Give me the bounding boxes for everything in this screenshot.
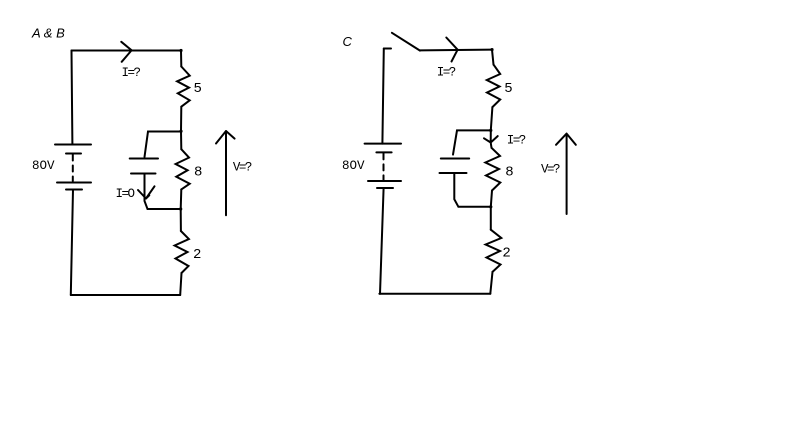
wire: left vertical from battery to bottom (circuit C)	[380, 188, 384, 294]
wire: right vertical top lead into R5 (circuit C)	[492, 50, 494, 65]
svg-text:V=?: V=?	[541, 163, 560, 177]
wire: R2 bottom lead (circuit C)	[490, 272, 492, 294]
svg-text:I=?: I=?	[507, 133, 526, 147]
wire: R2 top lead (circuit C)	[490, 207, 492, 230]
resistor R2 2-ohm (circuit A&B)	[175, 231, 189, 273]
svg-text:I=?: I=?	[122, 66, 141, 80]
current arrow chevron on top wire (circuit C)	[446, 38, 457, 62]
wire: bottom horizontal (circuit C)	[379, 293, 490, 295]
wire: left vertical from battery to bottom (circuit A&B)	[71, 190, 73, 296]
wire: R8 bottom lead to node (circuit C)	[491, 191, 492, 207]
wire: capacitor branch bottom (circuit A&B)	[145, 174, 181, 209]
node: capacitor top junction (circuit C)	[489, 129, 492, 132]
wire: capacitor branch top (circuit A&B)	[145, 132, 182, 158]
capacitor C1 (circuit A&B)	[130, 159, 158, 174]
switch S1 open blade (circuit C)	[392, 33, 420, 51]
current arrow I=0 on capacitor branch (circuit A&B)	[138, 186, 155, 198]
svg-text:I=?: I=?	[437, 65, 456, 79]
wire: left vertical from switch to battery (circuit C)	[382, 49, 383, 144]
resistor R5 5-ohm (circuit A&B)	[177, 67, 190, 107]
svg-text:C: C	[343, 34, 353, 49]
svg-text:8OV: 8OV	[342, 159, 365, 173]
svg-text:8OV: 8OV	[32, 159, 55, 173]
wire: R8 top lead (circuit A&B)	[180, 131, 182, 149]
resistor R8 8-ohm (circuit C)	[485, 148, 500, 191]
svg-text:2: 2	[193, 247, 201, 263]
svg-text:A & B: A & B	[31, 26, 65, 41]
wire with current arrow I=? down to R8 (circuit C)	[484, 130, 498, 147]
wire: between R5 and node A (circuit A&B)	[180, 107, 182, 132]
svg-text:8: 8	[505, 165, 513, 181]
wire: right vertical top lead into R5 (circuit A&B)	[180, 51, 182, 67]
current arrow chevron on top wire (circuit A&B)	[121, 42, 131, 62]
battery 80V (circuit C)	[365, 144, 401, 188]
capacitor C1 (circuit C)	[440, 159, 470, 174]
wire: bottom horizontal (circuit A&B)	[71, 294, 180, 296]
svg-text:2: 2	[502, 246, 510, 262]
resistor R5 5-ohm (circuit C)	[487, 65, 500, 108]
svg-text:I=O: I=O	[116, 187, 135, 201]
wire: top horizontal (circuit C)	[420, 49, 492, 52]
junction dot top-right corner (circuit C)	[490, 48, 493, 51]
junction dot top-right corner (circuit A&B)	[179, 49, 182, 52]
svg-text:V=?: V=?	[233, 160, 252, 174]
wire: top horizontal (circuit A&B)	[72, 50, 182, 52]
svg-text:5: 5	[504, 81, 512, 97]
svg-text:8: 8	[194, 165, 202, 181]
battery 80V (circuit A&B)	[55, 145, 91, 190]
wire: R8 bottom lead to node B (circuit A&B)	[180, 189, 183, 209]
wire: R2 bottom lead (circuit A&B)	[180, 273, 181, 295]
voltage arrow V=? pointing up (circuit A&B)	[216, 131, 235, 215]
wire: R2 top lead (circuit A&B)	[180, 209, 182, 231]
resistor R2 2-ohm (circuit C)	[486, 230, 502, 272]
svg-text:5: 5	[194, 81, 202, 97]
voltage arrow V=? pointing up (circuit C)	[556, 134, 576, 214]
wire: capacitor branch top (circuit C)	[453, 130, 491, 154]
switch S1 left contact tick (circuit C)	[384, 48, 391, 50]
node A: capacitor top junction (circuit A&B)	[179, 130, 182, 133]
node: capacitor bottom junction (circuit C)	[489, 205, 492, 208]
wire: left vertical from top corner to battery (circuit A&B)	[71, 51, 74, 145]
node B: capacitor bottom junction (circuit A&B)	[179, 207, 182, 210]
resistor R8 8-ohm (circuit A&B)	[176, 149, 190, 189]
wire: capacitor branch bottom (circuit C)	[454, 174, 491, 207]
wire: between R5 and node C1 (circuit C)	[491, 107, 493, 130]
